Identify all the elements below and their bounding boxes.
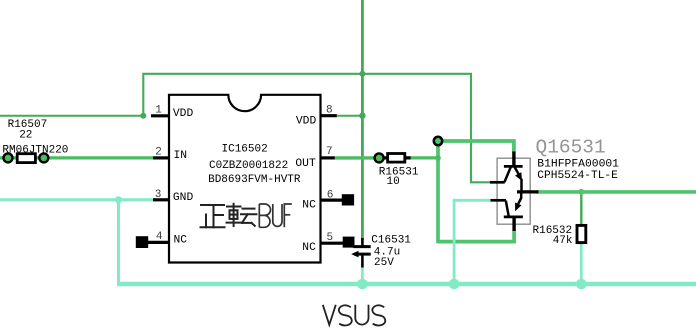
svg-text:NC: NC: [174, 235, 188, 247]
svg-text:B1HFPFA00001: B1HFPFA00001: [537, 159, 619, 171]
svg-text:NC: NC: [302, 200, 316, 212]
svg-text:25V: 25V: [374, 257, 394, 269]
svg-text:2: 2: [155, 147, 162, 159]
svg-text:8: 8: [326, 104, 333, 116]
svg-text:IC16502: IC16502: [222, 143, 268, 155]
svg-text:C0ZBZ0001822: C0ZBZ0001822: [209, 160, 288, 172]
svg-text:BD8693FVM-HVTR: BD8693FVM-HVTR: [208, 174, 301, 186]
svg-text:47k: 47k: [553, 235, 573, 247]
svg-text:6: 6: [327, 190, 334, 202]
svg-text:7: 7: [326, 146, 333, 158]
svg-text:VDD: VDD: [296, 116, 317, 128]
svg-text:5: 5: [327, 232, 334, 244]
svg-text:VDD: VDD: [173, 108, 194, 120]
svg-text:C16531: C16531: [371, 234, 411, 246]
svg-text:CPH5524-TL-E: CPH5524-TL-E: [537, 170, 618, 182]
svg-text:1: 1: [155, 104, 162, 116]
svg-text:OUT: OUT: [295, 158, 316, 170]
svg-text:10: 10: [387, 176, 400, 188]
svg-text:4: 4: [156, 231, 163, 243]
svg-text:GND: GND: [173, 192, 194, 204]
svg-text:NC: NC: [302, 242, 316, 254]
svg-text:Q16531: Q16531: [536, 137, 606, 159]
svg-text:3: 3: [155, 189, 162, 201]
svg-text:22: 22: [19, 130, 32, 142]
svg-text:RM06JTN220: RM06JTN220: [2, 145, 68, 157]
svg-text:IN: IN: [174, 150, 188, 162]
